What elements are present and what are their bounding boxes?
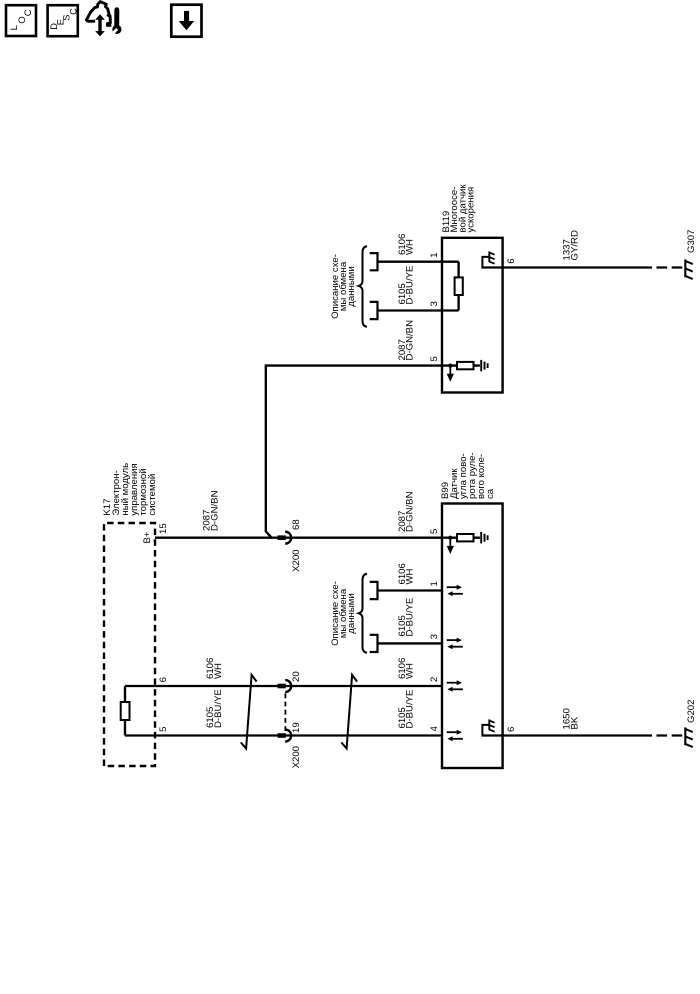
svg-text:1: 1 [429,581,440,586]
svg-text:6: 6 [506,727,517,732]
svg-text:данными: данными [346,593,357,633]
svg-text:15: 15 [158,523,169,534]
svg-text:L: L [9,24,20,30]
svg-text:2: 2 [429,677,440,682]
svg-text:1: 1 [429,252,440,257]
svg-text:5: 5 [158,726,169,731]
svg-text:WH: WH [405,568,416,584]
svg-text:4: 4 [429,726,440,732]
svg-text:19: 19 [291,722,302,733]
svg-text:D-BU/YE: D-BU/YE [405,266,416,305]
svg-text:D-BU/YE: D-BU/YE [213,689,224,728]
svg-text:5: 5 [429,356,440,361]
svg-text:20: 20 [291,671,302,682]
svg-text:GY/RD: GY/RD [570,230,581,260]
svg-text:X200: X200 [291,746,302,768]
svg-text:D-GN/BN: D-GN/BN [405,320,416,361]
svg-text:данными: данными [346,266,357,306]
svg-text:6: 6 [158,677,169,682]
svg-text:WH: WH [405,663,416,679]
svg-text:X200: X200 [291,550,302,572]
svg-text:D-BU/YE: D-BU/YE [405,690,416,729]
svg-text:системой: системой [147,474,158,516]
svg-text:6: 6 [506,258,517,263]
svg-text:са: са [485,488,496,499]
svg-text:WH: WH [213,663,224,679]
svg-text:O: O [17,16,28,23]
svg-text:ускорения: ускорения [466,187,477,233]
svg-text:D-BU/YE: D-BU/YE [405,598,416,637]
svg-text:G202: G202 [686,700,697,723]
svg-text:BK: BK [570,716,581,729]
svg-text:68: 68 [291,519,302,530]
svg-text:3: 3 [429,634,440,639]
svg-text:WH: WH [405,239,416,255]
svg-text:5: 5 [429,529,440,534]
svg-text:G307: G307 [686,230,697,253]
svg-text:B+: B+ [142,531,153,543]
svg-text:D-GN/BN: D-GN/BN [209,490,220,531]
svg-text:C: C [69,8,79,15]
svg-text:D-GN/BN: D-GN/BN [405,491,416,532]
svg-text:C: C [23,9,34,16]
svg-text:3: 3 [429,301,440,306]
